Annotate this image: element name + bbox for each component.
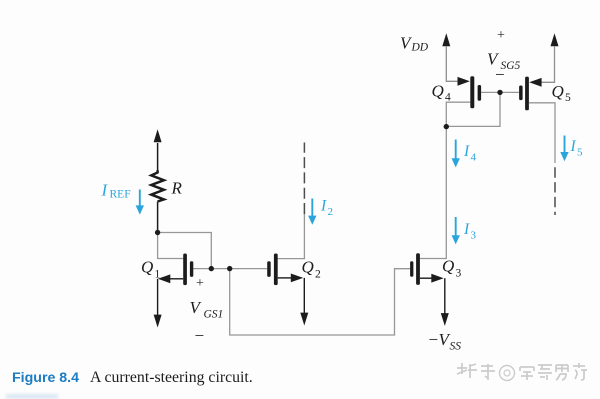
svg-text:I: I [463, 221, 470, 238]
svg-text:3: 3 [471, 230, 477, 242]
svg-text:I: I [463, 143, 470, 160]
svg-text:R: R [171, 179, 183, 198]
-VSS terminal arrow under Q1 [154, 315, 162, 328]
node D: Q3/Q4 drain junction [444, 124, 449, 129]
svg-text:+: + [196, 276, 204, 291]
svg-text:Q: Q [302, 258, 314, 277]
svg-text:1: 1 [155, 269, 161, 281]
transistor Q4 (PMOS, diode-connected, faces left) [470, 76, 481, 108]
svg-text:I: I [570, 138, 577, 155]
VDD terminal arrow (right, above Q5) [551, 33, 559, 46]
caption [12, 369, 253, 387]
wire IREF branch: resistor bottom node to Q1 drain [158, 233, 184, 259]
transistor Q1 (NMOS, diode-connected, faces left) [183, 254, 193, 286]
wire Q3 drain up to node [420, 127, 446, 259]
current arrow I4 (cyan) [455, 140, 457, 160]
svg-text:DD: DD [411, 42, 429, 54]
transistor Q2 (NMOS, faces right) [267, 254, 277, 286]
resistor R [151, 170, 164, 201]
wire Q5 drain down [529, 103, 555, 163]
node C: gate bus junction to bottom run [227, 266, 232, 271]
svg-text:Q: Q [432, 82, 444, 101]
svg-text:−: − [495, 65, 505, 84]
wire Q1 gate-drain top connection [158, 233, 212, 269]
svg-text:−: − [429, 330, 439, 349]
node E: Q4 gate junction [497, 90, 502, 95]
svg-text:GS1: GS1 [204, 309, 224, 321]
svg-text:V: V [190, 298, 203, 317]
svg-text:REF: REF [110, 189, 131, 201]
wire Q2 drain up [278, 213, 305, 259]
wire Q4 source to VDD [446, 47, 459, 82]
Q2 source lead with arrow [278, 277, 293, 279]
svg-text:3: 3 [456, 268, 462, 280]
svg-text:2: 2 [315, 269, 321, 281]
svg-text:−: − [195, 326, 205, 345]
current arrow IREF (cyan) [139, 190, 141, 208]
svg-text:5: 5 [577, 147, 583, 159]
svg-text:I: I [320, 198, 327, 215]
wire gate bus Q1 to Q2 [193, 268, 267, 270]
-VSS terminal arrow under Q3 [441, 313, 449, 326]
node B: Q1 gate junction [209, 266, 214, 271]
svg-text:Q: Q [141, 258, 153, 277]
svg-text:4: 4 [445, 92, 451, 104]
wire gate bus Q4 to Q5 [481, 91, 519, 93]
wire Q5 source to VDD [540, 47, 555, 83]
VDD terminal arrow (left, above R) [157, 143, 159, 171]
wire Q4 gate-drain diode connection [446, 92, 500, 126]
VDD terminal arrow (left, above Q4) [442, 33, 450, 46]
transistor Q5 (PMOS, faces right) [519, 77, 529, 111]
svg-text:I: I [101, 181, 109, 200]
watermark 知乎 @宝藏男孩 [454, 360, 599, 386]
Q3 source lead with arrow [420, 277, 434, 279]
wire Q1 source down to -VSS arrow [157, 279, 159, 316]
svg-text:Q: Q [552, 82, 564, 101]
wire gate bus to Q3 (down, right, up) [230, 269, 410, 335]
svg-text:2: 2 [328, 206, 334, 218]
svg-text:4: 4 [471, 152, 477, 164]
wire Q2 source down to -VSS arrow [303, 278, 305, 314]
current arrow I5 (cyan) [564, 136, 566, 154]
svg-text:SS: SS [450, 341, 462, 353]
current arrow I2 (cyan) [311, 199, 313, 217]
Q5 source arrow (points into device) [529, 78, 541, 87]
current arrow I3 (cyan) [455, 217, 457, 236]
transistor Q3 (NMOS, faces right) [410, 253, 420, 285]
svg-text:Q: Q [442, 257, 454, 276]
wire dashed output line I5 [554, 167, 556, 215]
svg-text:5: 5 [565, 92, 571, 104]
svg-text:+: + [497, 28, 505, 43]
wire dashed output line I2 [303, 143, 305, 215]
bottom-left faint smudge [6, 394, 58, 399]
wire Q3 source down to -VSS arrow [444, 278, 446, 314]
-VSS terminal arrow under Q2 [300, 313, 308, 326]
wire Q4 drain down to node [446, 102, 470, 126]
node A: resistor bottom / Q1 drain junction [155, 230, 160, 235]
Q4 source arrow (points into device) [458, 77, 470, 86]
Q1 source lead with arrow [168, 278, 183, 280]
